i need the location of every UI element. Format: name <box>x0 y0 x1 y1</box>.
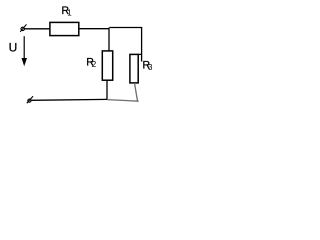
svg-text:3: 3 <box>148 63 153 72</box>
resistor R3 <box>130 54 138 83</box>
wire junction stub down to R2 <box>108 28 110 52</box>
resistor R1 <box>50 22 79 35</box>
wire terminal to R1 <box>24 28 50 30</box>
wire corner down towards R3 <box>141 28 143 62</box>
wire R1 to junction <box>79 28 110 30</box>
svg-text:2: 2 <box>92 60 97 69</box>
svg-text:U: U <box>9 41 18 55</box>
wire bottom right (R2 stub to R3 stub, gray) <box>107 100 139 102</box>
terminal X1 (top-left clamp) <box>20 24 26 32</box>
terminal X2 (bottom-left clamp) <box>27 96 33 103</box>
wire R3 bottom slanted stub <box>135 83 138 101</box>
wire R2 bottom stub <box>106 80 108 100</box>
wire junction to top-right corner <box>110 27 143 29</box>
svg-text:1: 1 <box>67 9 72 18</box>
resistor R2 <box>102 51 112 80</box>
wire jog to R3 top <box>138 53 142 55</box>
wire bottom left (terminal to R2 stub) <box>31 98 107 101</box>
arrow U (voltage arrow down) <box>22 36 28 66</box>
